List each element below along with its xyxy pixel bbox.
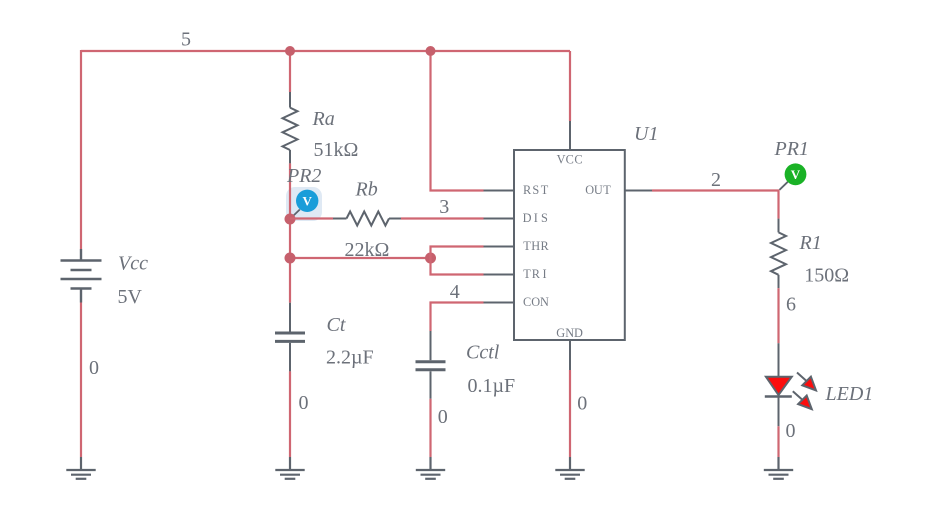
svg-text:5: 5 <box>181 29 191 51</box>
svg-text:GND: GND <box>556 326 583 340</box>
pin TRI stub <box>484 274 515 276</box>
svg-text:3: 3 <box>439 196 449 218</box>
svg-text:Ct: Ct <box>327 314 346 336</box>
svg-text:0: 0 <box>577 392 587 414</box>
svg-text:0.1µF: 0.1µF <box>468 375 516 397</box>
resistor Ra <box>283 92 298 163</box>
pin RST stub <box>484 190 515 192</box>
resistor R1 <box>771 219 786 289</box>
svg-text:2.2µF: 2.2µF <box>326 347 374 369</box>
svg-text:0: 0 <box>438 406 448 428</box>
wire Ra to junction PR2 <box>289 163 291 219</box>
svg-text:51kΩ: 51kΩ <box>314 139 359 161</box>
capacitor Cctl <box>416 331 446 399</box>
pin GND stub <box>569 340 571 370</box>
resistor Rb <box>333 212 401 226</box>
svg-text:RST: RST <box>523 183 549 197</box>
junction rail-RST <box>426 46 436 56</box>
svg-text:THR: THR <box>523 239 549 253</box>
junction 22k left <box>285 253 296 264</box>
wire OUT net2 <box>652 191 779 219</box>
svg-text:LED1: LED1 <box>825 383 874 405</box>
svg-text:V: V <box>303 193 313 208</box>
svg-text:6: 6 <box>786 294 796 316</box>
svg-text:CON: CON <box>523 295 549 309</box>
svg-text:0: 0 <box>299 392 309 414</box>
svg-text:Rb: Rb <box>355 179 378 201</box>
svg-text:TRI: TRI <box>523 267 546 281</box>
wire Ct to ground <box>289 371 291 457</box>
wire GND pin to ground <box>569 370 571 457</box>
wire rail to VCC pin <box>569 51 571 121</box>
probe PR1 circle <box>785 163 807 185</box>
svg-text:U1: U1 <box>634 123 658 145</box>
LED LED1 <box>765 343 816 426</box>
svg-text:PR2: PR2 <box>286 165 321 187</box>
ground LED <box>764 457 793 479</box>
wire Rb to DIS <box>401 217 484 219</box>
svg-text:4: 4 <box>450 281 460 303</box>
pin DIS stub <box>484 218 515 220</box>
capacitor Ct <box>275 303 305 372</box>
wire left vertical battery top <box>80 50 82 249</box>
svg-text:2: 2 <box>711 169 721 191</box>
probe PR2 background <box>286 187 322 221</box>
svg-text:150Ω: 150Ω <box>804 265 849 287</box>
ground left <box>66 457 95 479</box>
pin CON stub <box>484 302 515 304</box>
svg-text:R1: R1 <box>799 232 822 254</box>
junction rail-Ra <box>285 46 295 56</box>
LED arrow 2 <box>793 391 803 400</box>
wire LED to ground <box>777 426 779 457</box>
wire THR TRI jumper <box>431 247 484 275</box>
battery Vcc <box>61 249 102 303</box>
pin THR stub <box>484 246 515 248</box>
junction 22k right <box>425 253 436 264</box>
svg-text:OUT: OUT <box>585 183 611 197</box>
wire 22k net <box>290 257 431 259</box>
probe PR2 circle <box>296 190 318 212</box>
svg-text:5V: 5V <box>118 286 143 308</box>
svg-text:0: 0 <box>89 357 99 379</box>
LED arrow 1 <box>797 373 807 382</box>
wire Cctl to ground <box>429 399 431 457</box>
ground Ct <box>275 457 304 479</box>
wire rail to Ra <box>289 51 291 92</box>
wire net5 top rail <box>81 50 570 52</box>
wire PR2 node to Rb <box>290 217 333 219</box>
probe PR2 pointer <box>292 210 300 218</box>
svg-text:DIS: DIS <box>523 211 548 225</box>
svg-text:PR1: PR1 <box>774 138 809 160</box>
pin VCC stub <box>569 121 571 150</box>
junction PR2 node <box>285 214 296 225</box>
ground Cctl <box>416 457 445 479</box>
svg-text:Cctl: Cctl <box>466 342 500 364</box>
probe PR1 pointer <box>780 182 788 190</box>
svg-text:V: V <box>791 167 801 182</box>
wire battery bottom to ground <box>80 303 82 458</box>
svg-text:Vcc: Vcc <box>118 253 148 275</box>
svg-text:Ra: Ra <box>312 108 335 130</box>
wire rail to RST <box>431 51 484 191</box>
wire R1 to LED <box>777 288 779 343</box>
wire CON to Cctl <box>431 303 484 332</box>
pin OUT stub <box>625 190 652 192</box>
svg-text:VCC: VCC <box>557 152 583 166</box>
ground U1 <box>555 457 584 479</box>
op-amp U1 555 timer body <box>484 121 653 370</box>
wire junction to junction 22k <box>289 219 291 258</box>
svg-text:0: 0 <box>786 420 796 442</box>
wire junction down to Ct <box>289 258 291 303</box>
